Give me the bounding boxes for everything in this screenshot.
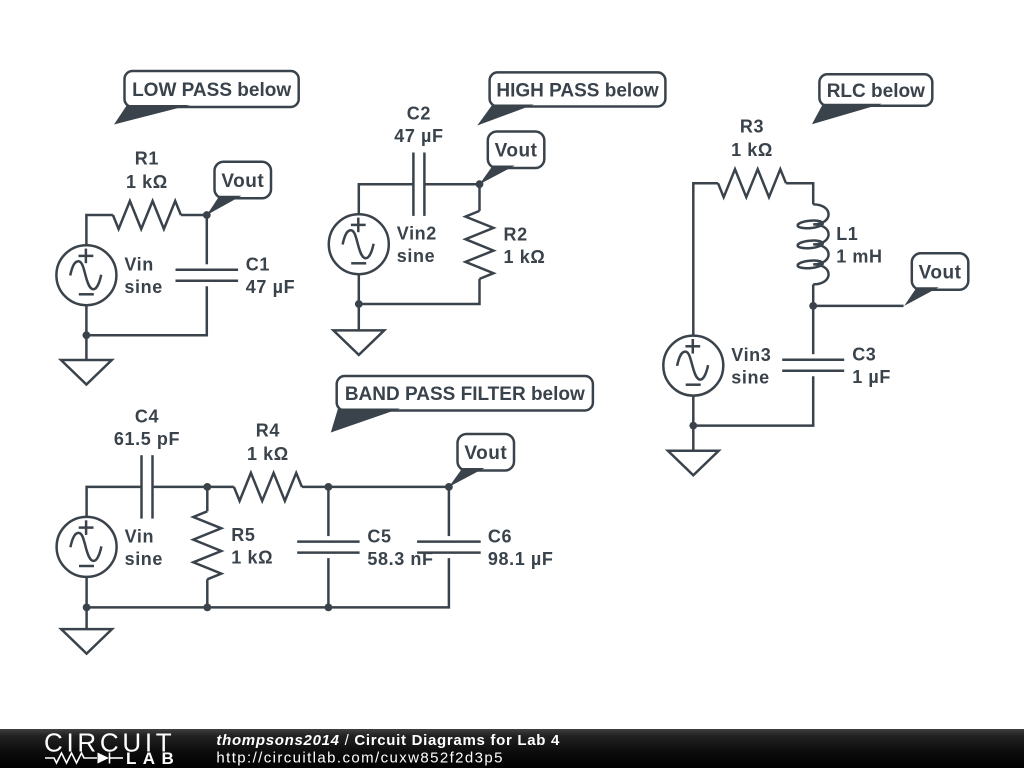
wire — [85, 577, 88, 607]
wire — [207, 486, 234, 489]
annotation callout "LOW PASS below" — [114, 71, 299, 125]
wire — [302, 486, 329, 489]
node n2 bottom junction — [325, 604, 333, 612]
svg-text:C4: C4 — [135, 406, 159, 426]
svg-text:61.5 pF: 61.5 pF — [114, 429, 180, 449]
svg-text:C5: C5 — [367, 527, 391, 547]
svg-text:http://circuitlab.com/cuxw852f: http://circuitlab.com/cuxw852f2d3p5 — [216, 749, 503, 766]
svg-text:sine: sine — [125, 549, 163, 569]
capacitor C4 — [114, 406, 180, 518]
wire — [86, 215, 113, 245]
capacitor C1 — [176, 255, 296, 298]
CircuitLab logo wordmark — [44, 728, 180, 768]
svg-text:Vin: Vin — [125, 526, 154, 546]
svg-text:47 µF: 47 µF — [246, 277, 295, 297]
ground — [333, 330, 384, 355]
voltage source Vin2 (sine) — [329, 214, 437, 274]
svg-text:sine: sine — [397, 246, 435, 266]
capacitor C6 — [417, 527, 553, 570]
svg-text:sine: sine — [731, 368, 769, 388]
voltage source Vin3 (sine) — [663, 336, 771, 396]
wire — [812, 306, 815, 354]
svg-text:R4: R4 — [256, 420, 280, 440]
svg-text:1 kΩ: 1 kΩ — [247, 444, 289, 464]
node Vout1 junction — [203, 211, 211, 219]
svg-text:R2: R2 — [504, 224, 528, 244]
wire — [358, 275, 361, 304]
svg-text:R3: R3 — [740, 117, 764, 137]
svg-text:RLC below: RLC below — [827, 81, 925, 102]
svg-text:C6: C6 — [488, 527, 512, 547]
svg-text:Vin: Vin — [124, 255, 153, 275]
resistor R2 — [466, 211, 546, 279]
node n1 bottom junction — [203, 604, 211, 612]
wire — [181, 214, 207, 217]
node Vout4 junction — [445, 483, 453, 491]
svg-text:C2: C2 — [407, 104, 431, 124]
node label Vout2 (Vout flag) — [480, 132, 545, 185]
svg-text:47 µF: 47 µF — [394, 126, 443, 146]
annotation callout "HIGH PASS below" — [477, 72, 665, 125]
node label Vout4 (Vout flag) — [449, 434, 514, 487]
svg-text:1 kΩ: 1 kΩ — [231, 547, 273, 567]
wire C6 top lead — [448, 487, 451, 536]
capacitor C2 — [394, 104, 443, 216]
svg-text:LAB: LAB — [126, 749, 180, 768]
resistor R4 — [234, 420, 302, 501]
node Vout3 junction — [809, 302, 817, 310]
logo resistor-diode glyph — [45, 753, 123, 764]
svg-text:1 kΩ: 1 kΩ — [731, 140, 773, 160]
svg-text:Vin3: Vin3 — [731, 345, 771, 365]
node n1 top junction — [203, 483, 211, 491]
svg-text:BAND PASS FILTER below: BAND PASS FILTER below — [345, 384, 585, 405]
resistor R3 — [718, 117, 786, 198]
node ground junction 2 — [355, 300, 363, 308]
wire R5 bottom lead — [206, 579, 209, 607]
svg-text:1 kΩ: 1 kΩ — [504, 247, 546, 267]
footer credit text — [216, 732, 560, 767]
svg-text:98.1 µF: 98.1 µF — [488, 549, 554, 569]
svg-text:1 µF: 1 µF — [852, 367, 891, 387]
resistor R1 — [113, 149, 181, 230]
svg-text:R1: R1 — [135, 149, 159, 169]
ground — [61, 629, 112, 654]
svg-text:thompsons2014 / Circuit Diagra: thompsons2014 / Circuit Diagrams for Lab… — [216, 732, 560, 749]
wire — [85, 607, 88, 629]
wire — [478, 184, 481, 211]
svg-text:Vin2: Vin2 — [397, 224, 437, 244]
svg-text:L1: L1 — [836, 224, 858, 244]
ground — [61, 360, 112, 385]
wire — [359, 184, 414, 214]
svg-text:HIGH PASS below: HIGH PASS below — [496, 81, 658, 102]
node label Vout3 (Vout flag) — [904, 253, 968, 306]
wire — [153, 486, 208, 489]
capacitor C5 — [297, 527, 433, 570]
wire — [812, 284, 815, 306]
wire C5 bottom lead — [327, 558, 330, 607]
node ground junction 4 — [83, 604, 91, 612]
wire — [693, 376, 813, 425]
wire bottom rail 4 — [87, 558, 449, 607]
wire — [692, 396, 695, 426]
svg-text:Vout: Vout — [221, 171, 264, 192]
wire C5 top lead — [327, 487, 330, 536]
ground — [668, 451, 719, 476]
capacitor C3 — [782, 345, 891, 388]
node ground junction 1 — [83, 331, 91, 339]
svg-text:Vout: Vout — [495, 141, 538, 162]
resistor R5 — [193, 511, 273, 579]
wire — [786, 183, 813, 204]
voltage source Vin (sine) — [56, 245, 162, 305]
wire — [85, 306, 88, 336]
wire — [328, 486, 449, 489]
wire — [85, 335, 88, 360]
svg-text:Vout: Vout — [919, 262, 962, 283]
wire — [693, 183, 718, 335]
voltage source Vin (sine) — [57, 517, 163, 577]
svg-text:Vout: Vout — [464, 443, 507, 464]
svg-text:sine: sine — [124, 277, 162, 297]
node n2 top junction — [325, 483, 333, 491]
svg-text:1 kΩ: 1 kΩ — [126, 172, 168, 192]
annotation callout "BAND PASS FILTER below" — [331, 376, 593, 433]
node Vout2 junction — [476, 180, 484, 188]
svg-text:LOW PASS below: LOW PASS below — [132, 80, 291, 101]
annotation callout "RLC below" — [812, 74, 932, 124]
svg-text:C1: C1 — [246, 255, 270, 275]
wire to Vout3 — [813, 305, 903, 308]
node label Vout (Vout flag) — [207, 162, 271, 215]
wire — [358, 304, 361, 330]
wire R5 top lead — [206, 487, 209, 511]
inductor L1 — [797, 204, 882, 284]
wire — [206, 215, 209, 264]
wire — [86, 286, 206, 335]
svg-text:1 mH: 1 mH — [836, 246, 882, 266]
node ground junction 3 — [689, 422, 697, 430]
wire — [424, 183, 479, 186]
svg-text:C3: C3 — [852, 345, 876, 365]
wire — [692, 426, 695, 451]
wire — [87, 487, 142, 517]
svg-text:R5: R5 — [231, 525, 255, 545]
wire — [359, 279, 480, 304]
